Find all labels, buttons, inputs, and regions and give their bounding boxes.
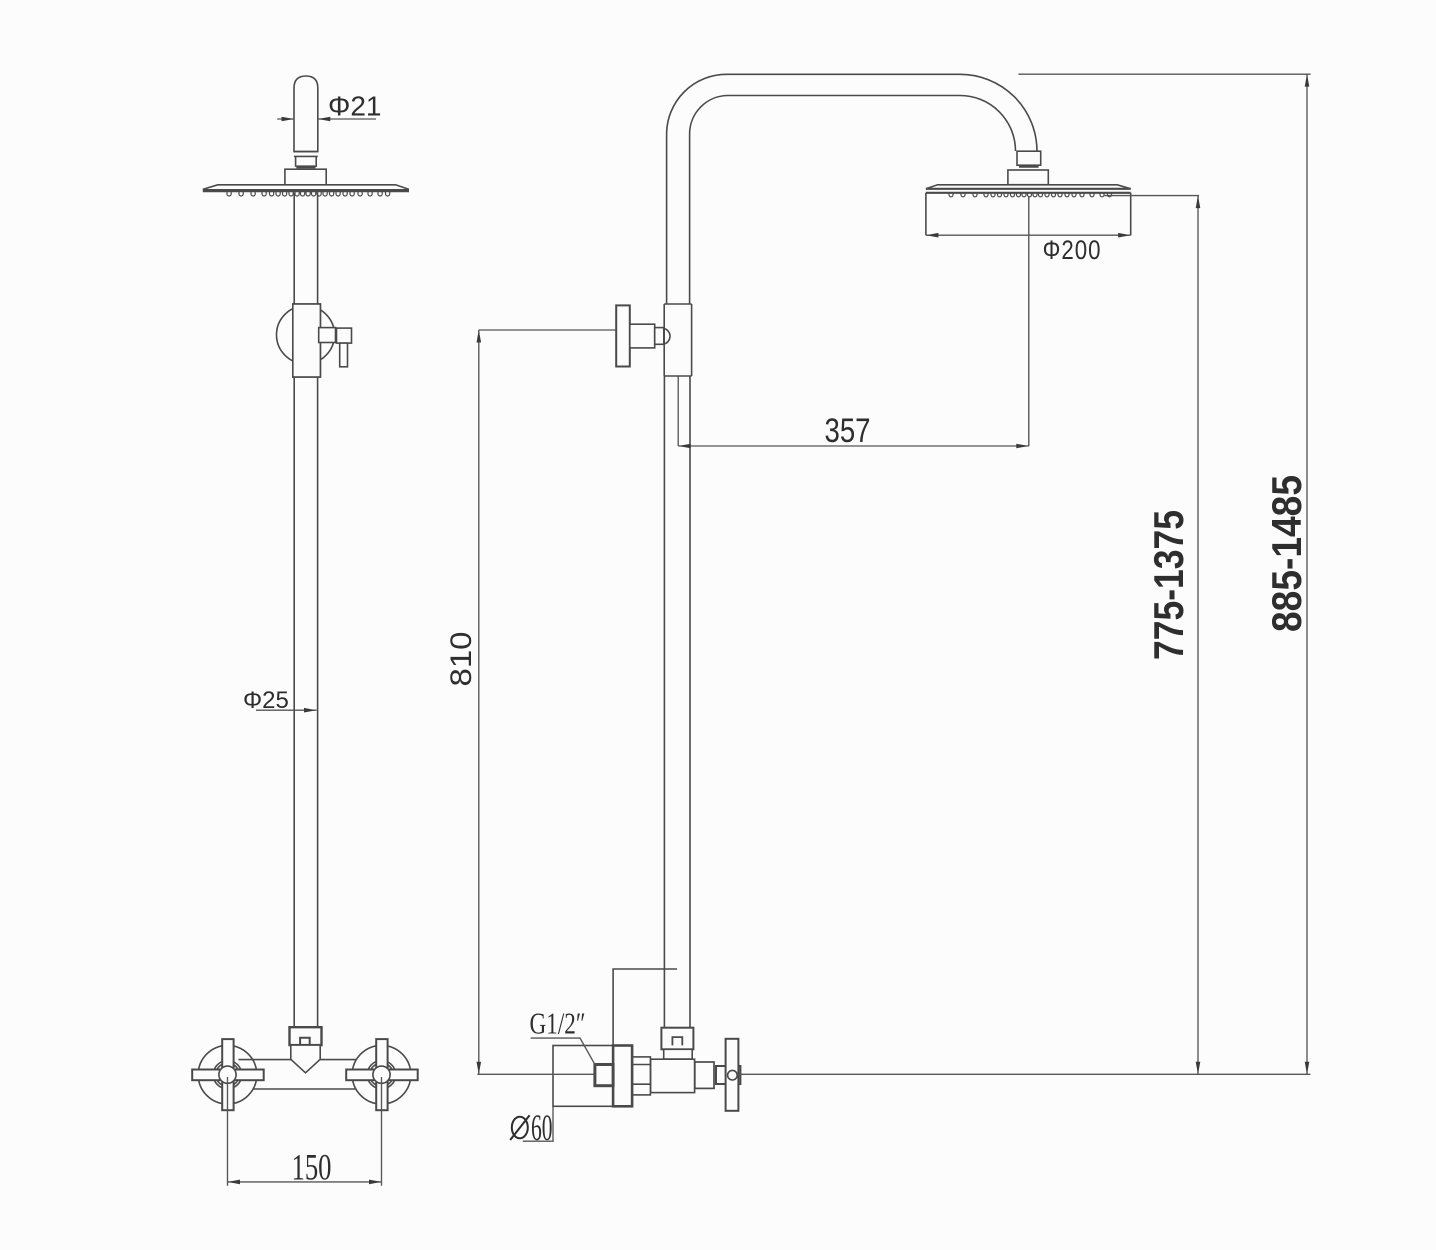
arm end seat line (side view, dark) [1019,165,1039,168]
arrow Φ200 left [926,233,939,238]
dimension 810 extension line [479,329,616,331]
head centerline (side view) [1028,197,1030,446]
riser pipe below diverter (side view) [664,376,690,1028]
dimension 150 line [228,1181,382,1183]
right handle cross bar horizontal (front view) [346,1070,418,1081]
shower head nozzles (front view) [227,192,390,196]
shower head body sides (side view) [926,193,1131,235]
mixer connector notch (front view) [300,1038,310,1045]
diverter slider block (side view) [664,304,691,376]
gooseneck shower arm outer contour (side view) [667,74,1037,304]
shower head nozzles (side view) [949,193,1112,197]
shower head plate (front view) [203,185,409,190]
top inlet pipe capsule (front view) [294,76,318,152]
wall flange plate (side view) [553,1046,613,1107]
diverter handle stem (front view) [340,343,348,367]
valve inlet fitting notch (side view) [672,1037,682,1045]
right handle hub (front view) [373,1066,390,1083]
arrow 150 left [228,1180,241,1185]
label Φ60 underline and leader [523,1106,554,1141]
label Φ60 [510,1115,529,1140]
svg-text:150: 150 [292,1148,332,1189]
diverter handle knob (front view) [337,328,352,343]
label G1/2 underline and leader [531,1038,595,1064]
valve right reducer (side view) [695,1062,714,1088]
dimension Φ200 line (head bottom) [926,234,1131,236]
diverter handle stem (side view) [630,324,655,348]
mixer spout pentagon (front view) [291,1045,320,1073]
arm end nut (side view) [1017,151,1041,165]
valve handle bar (side view) [726,1039,739,1111]
svg-text:885-1485: 885-1485 [1263,475,1310,632]
shower head plate (side view) [926,185,1131,189]
svg-text:775-1375: 775-1375 [1145,510,1192,660]
dimension 357 line [678,445,1029,447]
arrow Φ21 left [282,117,295,122]
arrow 810 top [477,330,482,343]
diverter neck bulge (side view) [664,328,670,344]
dimension Φ21 leader lines [277,118,376,120]
slider block (front view) [293,304,321,377]
svg-text:Φ21: Φ21 [328,91,381,122]
arrow 810 bottom [477,1062,482,1075]
bottom reference line [477,1073,1310,1075]
left handle flange circle (front view) [198,1045,257,1104]
svg-text:Φ25: Φ25 [243,687,289,714]
diverter stem neck (side view) [655,328,664,345]
svg-text:G1/2″: G1/2″ [530,1006,586,1041]
left handle escutcheon rings (front view) [213,1061,241,1089]
shower head plate rim (front view, thick) [203,189,409,192]
arrow 150 right [369,1180,382,1185]
arrow 885-1485 bottom [1305,1062,1310,1075]
shower head rim band (side view) [926,189,1131,193]
valve inlet fitting (side view) [661,1028,693,1050]
dimension 810 line [478,330,480,1074]
arrowheads [228,74,1310,1184]
arrow 357 right [1016,444,1029,449]
dimension 775-1375 line [1197,196,1199,1075]
valve handle hub (side view) [716,1066,740,1084]
arrow 885-1485 top [1305,74,1310,87]
right handle cross bar vertical (front view) [376,1039,387,1110]
gooseneck shower arm inner contour (side view) [690,96,1016,305]
dimension 775-1375 extension line [1105,195,1200,197]
svg-text:810: 810 [445,632,478,687]
arrow 775-1375 bottom [1196,1062,1201,1075]
valve handle hub circle (side view) [728,1070,738,1080]
svg-text:60: 60 [531,1108,553,1149]
arrow Φ21 right [318,117,331,122]
arrow Φ200 right [1118,233,1131,238]
mixer bar body (front view) [239,1060,357,1089]
shower head top connector block (front view) [285,169,326,185]
left handle hub (front view) [219,1066,236,1083]
arrow 357 left [678,444,691,449]
label Φ25 leader [256,709,317,711]
G1/2 inlet square (side view, thick) [595,1065,613,1086]
valve neck (side view) [664,1049,693,1059]
riser pipe upper segment (front view) [294,193,317,305]
right handle escutcheon rings (front view) [367,1061,395,1089]
riser pipe lower segment (front view) [294,377,317,1027]
mounting box (side view, thick) [613,1046,632,1107]
inlet pipe joint dark seat line [296,165,315,168]
inlet pipe joint collar (front view) [294,152,318,167]
right handle flange circle (front view) [352,1045,411,1104]
svg-text:357: 357 [825,412,871,450]
dimension 885-1485 line [1306,74,1308,1074]
dimension 357 extension line [677,377,679,447]
arrow Φ25 [304,708,317,713]
hex nut (side view) [632,1057,650,1095]
svg-text:Φ200: Φ200 [1043,235,1102,265]
left handle cross bar vertical (front view) [222,1039,233,1110]
diverter cross handle slab (side view) [616,305,630,366]
arrow 775-1375 top [1196,196,1201,209]
valve body (side view) [651,1059,695,1092]
diverter handle connector (front view) [319,328,336,343]
dimension 885-1485 extension line [1018,73,1310,75]
mixer inlet connector box (front view) [290,1027,322,1045]
dimension 150 extension lines [228,1077,382,1186]
wall bracket circle (front view) [277,306,335,364]
head top fitting (side view) [1008,170,1048,185]
slider block redrawn over circle [293,304,321,377]
left handle cross bar horizontal (front view) [192,1070,264,1081]
hex nut facet lines (side view) [632,1065,650,1085]
offset bracket outline (side view) [613,969,677,1046]
